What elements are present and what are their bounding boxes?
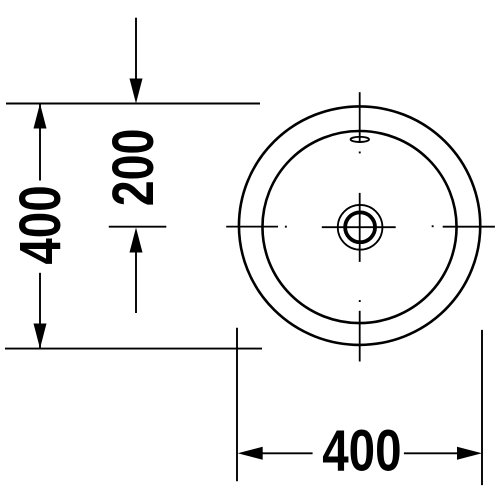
svg-text:400: 400 xyxy=(8,185,73,264)
vertical centreline upper dot xyxy=(359,152,361,154)
bottom 400 right extension line xyxy=(481,330,483,485)
200 dimension down arrowhead xyxy=(130,79,143,104)
bottom 400 right arrowhead xyxy=(457,447,482,460)
drain crosshair vertical xyxy=(359,193,361,262)
inner basin circle xyxy=(262,131,456,323)
200 dimension up arrowhead xyxy=(130,228,143,253)
left 400 dimension line upper segment xyxy=(39,104,41,181)
vertical centreline top segment xyxy=(359,92,361,143)
left 400 dimension line lower segment xyxy=(39,273,41,349)
bottom 400 left arrowhead xyxy=(238,447,263,460)
vertical centreline bottom segment xyxy=(359,311,361,362)
drain inner circle xyxy=(345,212,375,242)
bottom 400 dimension line right segment xyxy=(404,452,459,454)
horizontal centreline left segment xyxy=(226,226,278,228)
overflow ellipse xyxy=(351,137,369,142)
drain outer circle xyxy=(338,205,383,250)
svg-text:200: 200 xyxy=(101,129,166,207)
bottom 400 dimension line left segment xyxy=(261,452,313,454)
vertical centreline lower dot xyxy=(359,300,361,302)
200 dimension centre tick xyxy=(109,226,167,228)
bottom extension line xyxy=(5,348,262,350)
horizontal centreline left dot xyxy=(285,226,287,228)
200 dimension outside shaft below tick xyxy=(135,252,137,313)
200 dimension outside shaft above top line xyxy=(135,18,137,80)
outer rim circle xyxy=(239,106,480,345)
top extension line xyxy=(6,103,260,105)
horizontal centreline right dot xyxy=(432,225,434,227)
horizontal centreline right segment xyxy=(443,226,495,228)
drain crosshair horizontal xyxy=(322,226,396,228)
svg-text:400: 400 xyxy=(322,419,401,484)
bottom 400 left extension line xyxy=(236,328,238,482)
left 400 dimension lower arrowhead xyxy=(34,324,47,349)
left 400 dimension upper arrowhead xyxy=(34,104,47,129)
